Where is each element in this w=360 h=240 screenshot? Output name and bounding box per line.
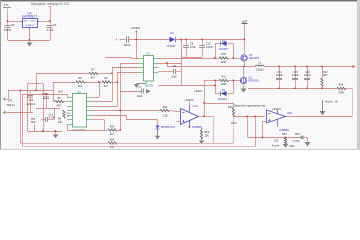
svg-text:LINE: LINE xyxy=(23,21,28,23)
bus wires left xyxy=(8,90,53,92)
svg-text:IRF3205: IRF3205 xyxy=(249,79,260,83)
wire detour box xyxy=(213,117,215,144)
svg-text:4K7: 4K7 xyxy=(78,85,83,88)
ground U3 xyxy=(134,84,146,88)
left connector JP1 xyxy=(4,91,34,114)
svg-text:BZX85C5V1: BZX85C5V1 xyxy=(161,126,176,129)
svg-text:10K: 10K xyxy=(274,139,279,142)
svg-text:R30: R30 xyxy=(221,53,226,56)
capacitor C11 xyxy=(41,113,55,122)
svg-text:JP1: JP1 xyxy=(8,99,13,103)
wire sense down right xyxy=(352,89,354,117)
svg-text:2200uF: 2200uF xyxy=(27,103,36,106)
capacitor C1 xyxy=(47,21,58,40)
inductor L1 xyxy=(256,61,264,72)
wire main switch node y66.5 xyxy=(167,66,256,68)
svg-text:R23: R23 xyxy=(295,133,300,136)
svg-text:10nF: 10nF xyxy=(137,95,143,98)
svg-text:100uF: 100uF xyxy=(123,43,131,47)
rail y131 xyxy=(28,131,63,133)
svg-text:10K: 10K xyxy=(205,135,210,138)
capacitor C7 + arrow xyxy=(121,86,151,98)
capacitor C8 xyxy=(42,93,49,109)
svg-text:UF4007: UF4007 xyxy=(166,44,176,48)
wire plus input U1A xyxy=(177,121,181,123)
svg-text:4K7: 4K7 xyxy=(104,85,109,88)
wire main +9 rail xyxy=(128,39,169,41)
svg-text:R21: R21 xyxy=(163,106,168,109)
MCU U2 xyxy=(67,90,91,132)
svg-text:100R: 100R xyxy=(221,61,227,64)
svg-text:+9VDC: +9VDC xyxy=(272,107,281,111)
capacitor C12 xyxy=(27,91,36,113)
frame border xyxy=(0,0,360,150)
resistor R26 xyxy=(108,139,117,149)
svg-text:U5A: U5A xyxy=(287,111,292,115)
wire node IN xyxy=(8,21,21,23)
svg-text:L1: L1 xyxy=(258,61,262,65)
resistor R24 + ground xyxy=(272,133,295,148)
svg-text:R25: R25 xyxy=(110,126,115,129)
node +9VDC xyxy=(131,26,142,58)
svg-text:LM358N: LM358N xyxy=(192,125,202,129)
svg-text:100nF: 100nF xyxy=(206,46,214,49)
wire U1A out xyxy=(199,116,214,118)
bottom rails xyxy=(21,143,109,145)
wire after D1 xyxy=(175,39,244,41)
svg-text:220uF: 220uF xyxy=(276,74,284,77)
wire h108.5 xyxy=(36,108,60,110)
resistor R17 bleeder xyxy=(321,67,328,89)
svg-text:Q1: Q1 xyxy=(249,53,253,57)
potentiometer arrow right xyxy=(320,100,338,115)
svg-text:1.5K: 1.5K xyxy=(162,115,167,118)
ground stub x55 xyxy=(55,131,57,135)
diode D3 snubber Q2 xyxy=(215,81,234,102)
capacitor C10 xyxy=(199,40,214,58)
svg-text:U1A: U1A xyxy=(193,104,198,108)
svg-text:D1: D1 xyxy=(170,31,174,35)
svg-text:+: + xyxy=(116,38,118,42)
svg-text:XT1: XT1 xyxy=(4,3,10,7)
diode D1 xyxy=(166,31,176,48)
svg-text:TR0: TR0 xyxy=(31,121,36,124)
resistor R16 shunt xyxy=(337,83,346,94)
svg-text:220uF: 220uF xyxy=(304,74,312,77)
svg-text:R26: R26 xyxy=(110,139,115,142)
wire output gnd rail y88.5 xyxy=(248,88,337,90)
svg-text:C10: C10 xyxy=(29,99,34,102)
timer U3 NE555 xyxy=(139,52,159,88)
opamp U1A xyxy=(181,104,202,129)
svg-text:LM358N: LM358N xyxy=(279,128,289,132)
transistor Q1 IRF3205 xyxy=(241,53,260,61)
wire Q1 source xyxy=(244,62,246,67)
wire to U5A minus xyxy=(234,116,265,118)
svg-text:IRF3205: IRF3205 xyxy=(249,56,260,60)
capacitor C4 xyxy=(4,21,15,40)
svg-text:4.7uF: 4.7uF xyxy=(47,28,54,32)
svg-text:R24: R24 xyxy=(282,133,287,136)
svg-text:220uH: 220uH xyxy=(256,69,264,72)
svg-text:R31: R31 xyxy=(221,76,226,79)
svg-text:4.7uF: 4.7uF xyxy=(49,117,56,120)
svg-text:C1: C1 xyxy=(53,23,57,27)
wire cap gnd rail xyxy=(181,57,202,59)
capacitor C6 xyxy=(183,40,196,58)
svg-text:50%: 50% xyxy=(290,145,296,148)
svg-text:Naponsko ogranicenje max: Naponsko ogranicenje max xyxy=(234,104,266,108)
resistor R5 xyxy=(53,97,67,107)
svg-text:4K7: 4K7 xyxy=(57,104,62,107)
capacitor C15 xyxy=(292,67,300,89)
svg-text:75R0: 75R0 xyxy=(338,91,345,94)
svg-text:NE555: NE555 xyxy=(145,83,153,87)
opamp U5A xyxy=(267,110,293,132)
svg-text:100nF: 100nF xyxy=(4,28,12,32)
wires below U5A xyxy=(247,117,249,138)
capacitor C13 xyxy=(276,67,284,89)
svg-text:100nF: 100nF xyxy=(292,74,300,77)
svg-text:Q2: Q2 xyxy=(249,75,253,79)
resistor R8 xyxy=(53,77,102,88)
resistor R19 xyxy=(199,128,210,144)
wire gnd rail psu xyxy=(8,40,51,42)
svg-text:Key=A: Key=A xyxy=(272,144,280,147)
zener D4 xyxy=(155,120,176,140)
wire Q2 drain xyxy=(243,67,245,77)
svg-text:100R: 100R xyxy=(221,83,227,86)
svg-text:R16: R16 xyxy=(339,83,344,86)
svg-text:+9VDC: +9VDC xyxy=(131,26,142,30)
wires right of U2 xyxy=(91,97,99,99)
resistor R30 gate Q1 xyxy=(159,53,242,64)
svg-text:C4: C4 xyxy=(11,23,15,27)
capacitor C16 xyxy=(304,67,312,89)
svg-text:4K7: 4K7 xyxy=(91,77,96,80)
svg-text:10K: 10K xyxy=(58,122,63,124)
svg-text:1K: 1K xyxy=(335,101,338,104)
resistor R31 gate Q2 xyxy=(204,76,240,86)
svg-text:4K7: 4K7 xyxy=(110,133,115,136)
wire +rail up xyxy=(50,7,52,22)
wires right of U3 xyxy=(159,63,182,65)
resistor R23 xyxy=(293,133,300,143)
capacitor C5 input elco xyxy=(116,36,132,47)
svg-text:4.7K0: 4.7K0 xyxy=(293,140,300,143)
svg-text:Key=A: Key=A xyxy=(325,101,333,104)
circuit schematic 360x150 xyxy=(0,0,360,150)
wire x36 xyxy=(36,74,38,91)
svg-text:+9VDC: +9VDC xyxy=(185,98,194,102)
resistor R25 xyxy=(108,126,121,136)
wire U2 pin1 xyxy=(67,94,69,97)
wire U2 left bottom pin xyxy=(67,124,69,130)
wires left of U3 xyxy=(105,57,131,59)
svg-text:+9VDC: +9VDC xyxy=(194,90,202,93)
svg-text:10uF: 10uF xyxy=(190,46,196,49)
svg-text:OUT: OUT xyxy=(58,90,64,93)
resistor R18 xyxy=(228,103,237,125)
regulator U4 LM7805CT xyxy=(20,11,39,29)
svg-text:Napajanje uredjaja 9V DC: Napajanje uredjaja 9V DC xyxy=(31,2,70,6)
svg-text:LM7805CT: LM7805CT xyxy=(22,15,38,19)
svg-text:VOUT: VOUT xyxy=(30,21,36,23)
diode D2 snubber Q1 xyxy=(215,40,234,58)
wire XT1 to U4 xyxy=(7,12,9,21)
resistor R20 vertical xyxy=(63,110,71,118)
wire Q2 source + ground xyxy=(243,84,245,88)
svg-text:R18: R18 xyxy=(228,106,233,109)
svg-text:COMMON: COMMON xyxy=(25,25,35,27)
resistor R9 xyxy=(102,77,118,88)
terminal block xyxy=(301,136,311,147)
supply terminal +BAT xyxy=(241,20,248,55)
connector XT1 xyxy=(3,3,11,12)
wire U4 out xyxy=(39,21,50,23)
svg-text:U3: U3 xyxy=(146,52,150,56)
wire JP2 down xyxy=(34,124,36,131)
transistor Q2 IRF3205 xyxy=(240,75,259,83)
resistor R21 xyxy=(121,106,181,117)
svg-text:4R7: 4R7 xyxy=(323,74,328,77)
svg-text:UF4007: UF4007 xyxy=(219,47,229,51)
ground psu xyxy=(27,43,33,47)
svg-text:10nF: 10nF xyxy=(171,76,177,79)
svg-text:UF4007: UF4007 xyxy=(218,97,228,101)
wire vertical x181 xyxy=(181,40,183,86)
resistor R7 xyxy=(36,68,112,79)
svg-text:TR0.1A: TR0.1A xyxy=(7,104,16,107)
